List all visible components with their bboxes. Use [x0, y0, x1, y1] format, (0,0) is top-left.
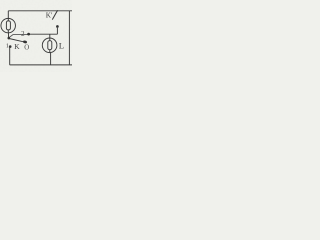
wire pivot A toward contact 2 [10, 35, 30, 38]
wire left upper [7, 11, 9, 19]
galvanometer inner element [6, 21, 10, 30]
svg-text:L: L [59, 40, 64, 50]
svg-text:O: O [24, 44, 29, 51]
switch K' blade [52, 10, 57, 19]
lead from galvanometer to pivot A [8, 33, 10, 37]
galvanometer circle [1, 18, 16, 32]
wire left lower from contact 1 to bottom [9, 48, 11, 65]
switch K blade [10, 39, 23, 42]
galvanometer inner leads [7, 19, 9, 33]
wire contact 2 to corner [29, 33, 57, 35]
lamp L circle [42, 38, 57, 53]
lamp L top lead [49, 34, 51, 38]
switch K knob [23, 40, 28, 44]
lamp L bottom lead [50, 52, 52, 65]
lamp L inner leads [49, 38, 51, 52]
contact 2 dot [27, 33, 30, 36]
lamp L inner element [48, 41, 52, 50]
svg-text:K: K [14, 42, 20, 51]
wire corner up to K' contact [56, 28, 58, 34]
svg-text:1: 1 [6, 43, 9, 50]
wire top [8, 10, 72, 12]
svg-text:K′: K′ [46, 11, 53, 19]
wire bottom [10, 64, 72, 66]
wire right [68, 11, 70, 65]
background [0, 0, 72, 72]
pivot dot A [8, 37, 11, 40]
svg-text:2: 2 [21, 31, 25, 38]
contact 1 dot [9, 45, 12, 48]
K' contact dot [56, 25, 59, 28]
